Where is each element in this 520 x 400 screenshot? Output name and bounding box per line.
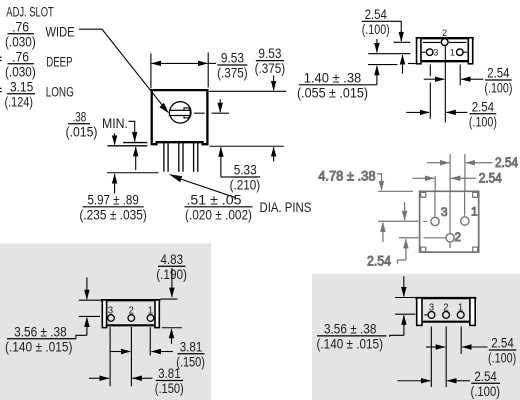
value 3.81/(.150) upper fraction xyxy=(176,339,205,369)
dimension .38 MIN: seating reference line B xyxy=(108,145,148,147)
svg-text:(.055 ± .015): (.055 ± .015) xyxy=(297,85,368,100)
value 2.54/(.100) p2 lower fraction xyxy=(471,369,501,399)
dimension 2.54 (pins 2-1) row A arrows xyxy=(427,162,438,164)
dimension 2.54 p2 pins 2-1 arrows xyxy=(426,346,435,348)
svg-text:1.40 ± .38: 1.40 ± .38 xyxy=(304,70,362,85)
svg-text:2.54: 2.54 xyxy=(367,254,392,269)
svg-text:5.97 ± .89: 5.97 ± .89 xyxy=(87,192,138,207)
svg-text:.51 ± .05: .51 ± .05 xyxy=(187,192,242,207)
side view 1 pin-row extension left xyxy=(79,315,100,317)
side view 1 pin 3 circle xyxy=(108,315,115,322)
leader line from WIDE to screw slot xyxy=(79,29,162,105)
side view 1 body top edge xyxy=(101,299,160,301)
dimension 9.53 width: dimension line with arrows xyxy=(162,62,197,64)
svg-text:(.100): (.100) xyxy=(469,114,497,129)
L_low extension line (pin 2 level) xyxy=(399,237,418,239)
svg-text:5.33: 5.33 xyxy=(234,163,257,178)
dimension 2.54 pins 3-2: arrows row xyxy=(406,111,419,113)
bottom view pin 1 extension above xyxy=(464,154,466,191)
dimension 5.33: down arrow xyxy=(219,99,221,112)
svg-text:2.54: 2.54 xyxy=(365,7,388,22)
top view pin 1 projection line xyxy=(459,65,461,86)
pin 2 (middle) of front view xyxy=(178,143,180,172)
bottom view dash left of pin 3 xyxy=(423,220,427,222)
dimension 3.56 p1: up arrow with elbow xyxy=(86,318,88,336)
value 3.56 +/- .38 fraction panel2 xyxy=(317,321,387,351)
svg-text:.76: .76 xyxy=(12,19,29,34)
side view 2 pin 3 circle xyxy=(428,312,435,319)
side view 1 pin 2 circle xyxy=(128,315,135,322)
dimension 5.33: slot-level reference line xyxy=(212,112,230,114)
side view 1 left flange xyxy=(102,300,106,328)
side view 2 pin 1 projection line xyxy=(460,327,462,354)
svg-text:(.030): (.030) xyxy=(5,34,36,49)
value 3.15/(.124) LONG fraction xyxy=(5,79,36,109)
dimension 3.56 p2: down arrow xyxy=(403,276,405,296)
dimension 9.53 height: top extension line xyxy=(209,90,286,92)
leader for .51 DIA. PINS pointing at pin bottom xyxy=(169,174,183,182)
slot upper tab xyxy=(184,108,189,110)
svg-text:(.140 ± .015): (.140 ± .015) xyxy=(5,339,73,354)
side view 2 body bottom edge xyxy=(422,321,470,323)
side view 2 pin 2 circle xyxy=(443,312,450,319)
side view 1 top-edge extension left xyxy=(79,299,101,301)
svg-text:MIN.: MIN. xyxy=(102,116,128,131)
top view pin 2 projection line xyxy=(444,46,446,123)
pin2 level extension line L2 xyxy=(394,41,411,43)
left edge tick marks xyxy=(0,56,2,58)
svg-text:DEEP: DEEP xyxy=(46,55,72,70)
side view 1 pin 2 projection line xyxy=(130,327,132,386)
side view 2 pin 2 projection line xyxy=(445,327,447,388)
dimension 9.53 width: left extension line xyxy=(150,53,152,88)
side view 1 pin 1 circle xyxy=(147,315,154,322)
svg-text:2: 2 xyxy=(443,302,448,313)
svg-text:3.56 ± .38: 3.56 ± .38 xyxy=(324,321,377,336)
dimension 5.33: up arrow with elbow to text xyxy=(220,147,222,177)
value 4.83/(.190) fraction xyxy=(156,252,187,282)
dimension 2.54 (pins 3-2) row B arrows xyxy=(413,177,425,179)
svg-text:WIDE: WIDE xyxy=(46,25,75,40)
svg-text:2: 2 xyxy=(442,28,447,38)
svg-text:1: 1 xyxy=(148,306,153,317)
pin 3 (right) of front view xyxy=(193,143,195,172)
svg-text:(.015): (.015) xyxy=(66,124,98,139)
bottom view pin 1 circle xyxy=(461,217,469,225)
value 5.97 +/- .89 fraction xyxy=(79,192,147,222)
side view 2 left flange xyxy=(417,298,422,326)
value .38/(.015) fraction xyxy=(66,109,98,139)
bottom view corner square bottom-left xyxy=(421,247,426,252)
dimension 1.40: down arrow to L31 xyxy=(376,39,378,52)
dimension 5.97: pin-bottom reference line C xyxy=(107,172,159,174)
dimension .38 MIN: down arrow to line A xyxy=(134,132,136,142)
bottom view pin 3 extension above xyxy=(434,176,436,191)
svg-text:2.54: 2.54 xyxy=(472,99,495,114)
value 2.54/(.100) pins 2-1 fraction xyxy=(484,66,512,96)
side view 1 body bottom edge xyxy=(107,324,154,326)
svg-text:(.140 ± .015): (.140 ± .015) xyxy=(317,336,384,351)
svg-text:2.54: 2.54 xyxy=(479,171,502,186)
gray panel lower-left xyxy=(0,243,211,400)
value 1.40 +/- .38 fraction xyxy=(297,70,368,100)
value 9.53/(.375) height fraction xyxy=(255,46,286,76)
svg-text:3: 3 xyxy=(441,205,448,219)
top view body bottom edge xyxy=(422,60,468,62)
dimension 5.97: down arrow to line B xyxy=(114,133,116,144)
svg-text:(.100): (.100) xyxy=(362,22,390,37)
L_mid extension line (pins 3/1 level) xyxy=(378,220,418,222)
svg-text:(.030): (.030) xyxy=(5,64,36,79)
front view body outline with standoff feet xyxy=(152,90,208,144)
value 3.81/(.150) lower fraction xyxy=(155,366,184,396)
adjustment screw circle xyxy=(170,102,191,123)
svg-text:1: 1 xyxy=(471,205,478,219)
svg-text:9.53: 9.53 xyxy=(221,51,244,66)
svg-text:(.100): (.100) xyxy=(484,81,512,96)
top view pin3/1 row segments xyxy=(422,51,426,53)
top view pin 1 circle xyxy=(457,49,464,56)
side view 2 pin-row extension left xyxy=(395,313,415,315)
dimension 4.78: up arrow to L_mid xyxy=(382,223,384,243)
value 2.54/(.100) p2 upper fraction xyxy=(488,336,516,366)
value .76/(.030) WIDE fraction xyxy=(5,19,36,49)
bottom view square body xyxy=(420,191,479,252)
svg-text:(.150): (.150) xyxy=(155,381,184,396)
screw centerline dash xyxy=(194,112,205,114)
dimension 2.54 top: bracket and down arrow to L2 xyxy=(390,21,401,32)
dimension .38 MIN: up arrow to line B xyxy=(135,147,137,170)
svg-text:2.54: 2.54 xyxy=(495,155,518,170)
top view pin 3 circle xyxy=(426,49,433,56)
side view 2 dash left of pin 3 xyxy=(424,314,427,316)
bottom view pin 2 circle xyxy=(446,234,454,242)
dimension .38 MIN: bracket from MIN. text xyxy=(129,121,135,132)
dimension .38 MIN: body-bottom reference line A xyxy=(123,142,147,144)
pin3/1 level extension line L31 xyxy=(368,53,410,55)
bottom view pin 1 internal line xyxy=(464,192,466,216)
bottom view pin 3 internal line xyxy=(434,192,436,216)
svg-text:.76: .76 xyxy=(12,49,29,64)
slot lower tab xyxy=(184,116,189,118)
value .51 +/- .05 fraction xyxy=(185,192,253,222)
L_top extension line xyxy=(378,190,413,192)
side view 1 right flange xyxy=(155,300,159,328)
bottom view dash below pin 2 xyxy=(449,243,451,248)
body bottom level extension line LB xyxy=(368,64,398,66)
svg-text:2.54: 2.54 xyxy=(491,336,514,351)
value 2.54/(.100) top fraction xyxy=(362,7,390,37)
svg-text:(.100): (.100) xyxy=(471,384,501,399)
top view pin 3 projection line xyxy=(429,65,431,77)
value 3.56 +/- .38 fraction panel1 xyxy=(5,324,76,354)
svg-text:ADJ. SLOT: ADJ. SLOT xyxy=(6,4,54,19)
svg-text:(.235 ± .035): (.235 ± .035) xyxy=(79,207,147,222)
svg-text:3: 3 xyxy=(108,306,113,317)
dimension 9.53 height: down arrow xyxy=(273,76,275,91)
bottom view corner square bottom-right xyxy=(473,247,478,252)
bottom view line left of pin 2 xyxy=(424,237,446,239)
screw slot xyxy=(169,110,190,115)
side view 2 right flange xyxy=(470,298,475,326)
svg-text:LONG: LONG xyxy=(46,85,74,100)
top view pin2 row segments xyxy=(423,41,441,43)
side view 1 top-edge extension right xyxy=(160,298,177,300)
svg-text:9.53: 9.53 xyxy=(258,46,281,61)
side view 1 pin 1 projection line xyxy=(149,327,151,356)
value 9.53/(.375) width fraction xyxy=(217,51,248,81)
side view 2 pin 3 projection line xyxy=(430,327,432,388)
dimension 9.53 width: right extension line xyxy=(207,53,209,88)
dimension 4.78: bracket and down arrow to L_top xyxy=(377,174,382,182)
svg-text:2.54: 2.54 xyxy=(487,66,510,81)
dimension 2.54 top: up arrow to L31 xyxy=(402,55,404,74)
top view body top edge xyxy=(416,37,474,39)
dimension 5.97: up arrow to line C xyxy=(114,174,116,193)
side view 2 top-edge extension left xyxy=(395,297,415,299)
svg-text:(.100): (.100) xyxy=(488,351,516,366)
leader arrowhead at screw slot xyxy=(159,103,168,114)
side view 1 pin 3 projection line xyxy=(109,327,111,386)
svg-text:2: 2 xyxy=(454,230,461,244)
svg-text:3.81: 3.81 xyxy=(158,366,181,381)
dimension 9.53 height: seating plane extension line xyxy=(210,145,284,147)
svg-text:2: 2 xyxy=(129,306,134,317)
dimension 2.54 p2 pins 3-2 arrows xyxy=(398,380,421,382)
dimension 4.83: shaft and down arrow xyxy=(171,268,173,297)
svg-text:DIA. PINS: DIA. PINS xyxy=(260,200,312,215)
svg-text:(.375): (.375) xyxy=(217,66,248,81)
dimension 4.83: up arrow xyxy=(171,329,173,344)
gray panel lower-right xyxy=(312,274,520,400)
bottom view pin 2 internal line xyxy=(449,192,451,233)
svg-text:2.54: 2.54 xyxy=(474,369,497,384)
dimension 1.40: up arrow to LB with elbow xyxy=(376,66,378,85)
dimension 3.81 pins 2-1 arrows xyxy=(110,351,120,353)
svg-text:(.210): (.210) xyxy=(230,178,261,193)
bottom view corner square top-left xyxy=(421,192,426,197)
top view right flange xyxy=(468,38,472,64)
svg-text:3.15: 3.15 xyxy=(10,79,33,94)
svg-text:.38: .38 xyxy=(73,109,87,124)
top view pin 2 circle xyxy=(441,39,448,46)
value .76/(.030) DEEP fraction xyxy=(5,49,36,79)
dimension 2.54 left: up arrow to L_low with elbow xyxy=(405,239,407,260)
side view 2 pin 1 circle xyxy=(457,312,464,319)
svg-text:3.56 ± .38: 3.56 ± .38 xyxy=(14,324,67,339)
bottom view corner square top-right xyxy=(473,192,478,197)
dimension 2.54 left: down arrow to L_mid xyxy=(404,202,406,220)
svg-text:(.375): (.375) xyxy=(255,61,286,76)
svg-text:1: 1 xyxy=(450,47,455,57)
dimension 3.81 pins 3-2 arrows xyxy=(89,377,99,379)
dimension 2.54 pins 2-1: arrows row xyxy=(424,78,434,80)
dimension 9.53 height: up arrow xyxy=(273,147,275,161)
top view left flange xyxy=(417,38,421,64)
svg-text:3: 3 xyxy=(429,302,434,313)
side view 1 seating extension right xyxy=(162,327,182,329)
side view 2 body top edge xyxy=(415,297,476,299)
svg-text:(.124): (.124) xyxy=(5,94,34,109)
svg-text:3: 3 xyxy=(433,47,438,57)
bottom view pin 3 circle xyxy=(431,217,439,225)
svg-text:4.83: 4.83 xyxy=(161,252,184,267)
value 2.54/(.100) pins 3-2 fraction xyxy=(469,99,497,129)
pin 1 (left) of front view xyxy=(163,143,165,172)
dimension 3.56 p2: up arrow with elbow xyxy=(403,315,405,335)
svg-text:(.020 ± .002): (.020 ± .002) xyxy=(185,207,252,222)
value 5.33/(.210) fraction xyxy=(230,163,261,193)
dimension 3.56 p1: down arrow xyxy=(86,278,88,300)
svg-text:3.81: 3.81 xyxy=(180,339,203,354)
bottom view pin 2 extension above xyxy=(449,154,451,191)
svg-text:4.78 ± .38: 4.78 ± .38 xyxy=(318,169,375,184)
svg-text:1: 1 xyxy=(458,302,463,313)
